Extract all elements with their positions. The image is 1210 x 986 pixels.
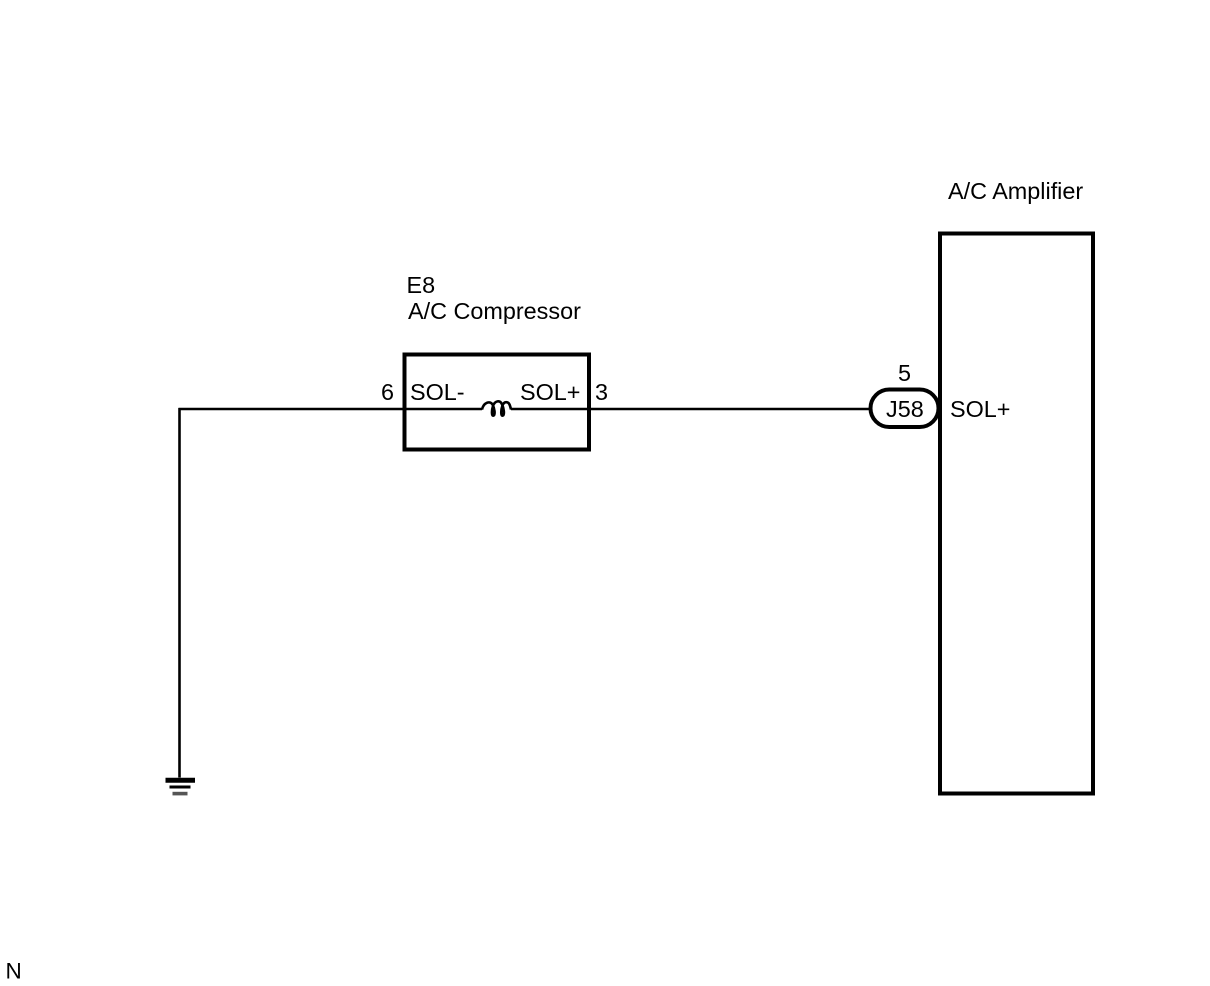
wire: vertical leg down to ground <box>178 408 181 778</box>
connector J58 oval <box>871 390 939 428</box>
svg-text:E8: E8 <box>407 272 436 298</box>
wire: horizontal from coil to J58 connector <box>511 408 870 411</box>
svg-text:A/C Compressor: A/C Compressor <box>408 298 581 324</box>
A/C amplifier box U1 <box>940 234 1093 794</box>
svg-text:J58: J58 <box>886 396 924 422</box>
svg-text:3: 3 <box>595 379 608 405</box>
svg-text:A/C Amplifier: A/C Amplifier <box>948 178 1083 204</box>
svg-text:N: N <box>6 959 22 984</box>
svg-text:5: 5 <box>898 360 911 386</box>
svg-text:SOL+: SOL+ <box>520 379 580 405</box>
svg-text:SOL-: SOL- <box>410 379 465 405</box>
ground G1 <box>166 780 196 793</box>
svg-text:SOL+: SOL+ <box>950 396 1010 422</box>
wire: horizontal from ground leg to coil <box>179 408 483 411</box>
coil L1 (solenoid) inside E8 <box>482 401 511 415</box>
svg-text:6: 6 <box>381 379 394 405</box>
connector box E8 <box>405 355 590 450</box>
